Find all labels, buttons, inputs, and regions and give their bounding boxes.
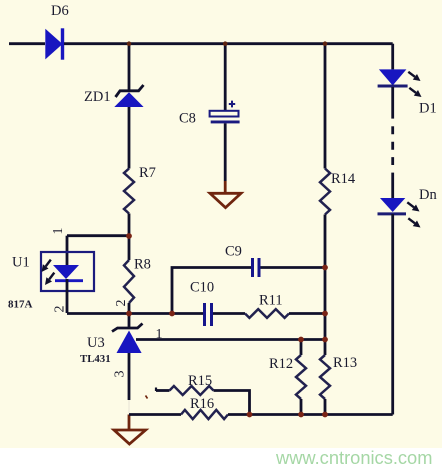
wire: top rail left of D6 bbox=[9, 42, 45, 45]
capacitor C8 bbox=[210, 44, 240, 181]
resistor R16 bbox=[181, 410, 228, 419]
ground under C8 bbox=[210, 181, 241, 208]
svg-text:R14: R14 bbox=[331, 171, 356, 187]
svg-text:R8: R8 bbox=[134, 257, 151, 273]
wire: bottom rail left of R16 bbox=[129, 413, 181, 416]
svg-text:D1: D1 bbox=[419, 101, 437, 117]
node R13 bottom bbox=[322, 412, 328, 418]
wire: U1 pin1 vertical bbox=[66, 236, 69, 265]
LED Dn bbox=[378, 198, 407, 214]
wire: U3 pin3 down bbox=[128, 353, 131, 400]
wire: dashed to Dn bbox=[391, 173, 394, 198]
op-to box U1 bbox=[41, 252, 94, 291]
svg-text:C9: C9 bbox=[225, 244, 242, 260]
svg-text:817A: 817A bbox=[8, 299, 33, 311]
svg-text:C10: C10 bbox=[190, 280, 214, 296]
zener ZD1 bbox=[114, 85, 143, 107]
svg-text:TL431: TL431 bbox=[80, 353, 111, 365]
light arrow 1 of D1 bbox=[408, 72, 420, 81]
wire: R11 to R14 column bbox=[289, 312, 325, 315]
resistor R15 bbox=[156, 386, 250, 415]
resistor R8 bbox=[124, 236, 134, 314]
svg-text:R13: R13 bbox=[333, 355, 357, 371]
light arrow 2 of U1 bbox=[45, 273, 54, 285]
diode D6 bbox=[45, 28, 64, 59]
svg-text:2: 2 bbox=[114, 300, 129, 307]
wire: dashed LED string continuation bbox=[391, 126, 394, 165]
resistor R14 bbox=[320, 169, 330, 215]
resistor R11 bbox=[245, 309, 289, 318]
svg-text:R15: R15 bbox=[188, 373, 212, 389]
svg-text:www.cntronics.com: www.cntronics.com bbox=[275, 447, 432, 468]
regulator U3 TL431 bbox=[112, 314, 143, 354]
wire: C9 left branch bbox=[172, 268, 251, 314]
wire: top rail from D6 to right corner bbox=[64, 42, 393, 45]
node top-ZD1 bbox=[127, 41, 132, 46]
node R15/R16 bbox=[247, 412, 253, 418]
node C9 branch bbox=[169, 311, 175, 317]
resistor R12 bbox=[296, 340, 306, 415]
ground under U3 bbox=[114, 415, 146, 445]
node R11/R14 bbox=[322, 311, 328, 317]
LED inside U1 bbox=[53, 265, 83, 313]
node R12 top bbox=[298, 337, 304, 343]
capacitor C9 bbox=[253, 258, 260, 277]
node top-C8 bbox=[223, 41, 228, 46]
node R8/U1 pin2 bbox=[126, 311, 132, 317]
wire: bottom rail right of R16 bbox=[228, 413, 393, 416]
node top-R14 bbox=[323, 41, 328, 46]
wire: U1 pin2 net horizontal bbox=[67, 312, 203, 315]
wire: C10 to R11 bbox=[213, 312, 245, 315]
svg-text:R7: R7 bbox=[139, 165, 156, 181]
svg-text:U1: U1 bbox=[12, 255, 30, 271]
wire: right LED column top bbox=[391, 44, 394, 70]
tick mark left of R15 bbox=[146, 396, 148, 399]
wire: U1 pin1 horizontal bbox=[67, 234, 129, 237]
light arrow 1 of U1 bbox=[42, 260, 51, 272]
svg-text:ZD1: ZD1 bbox=[84, 89, 111, 105]
wire: ZD1 to R7 bbox=[128, 107, 131, 169]
svg-text:Dn: Dn bbox=[419, 187, 437, 203]
wire: Dn to bottom right corner bbox=[391, 214, 394, 415]
wire: U3 pin1 net to R12 R13 bbox=[136, 338, 325, 341]
wire: R14 column from top rail bbox=[324, 44, 327, 169]
wire: R7 to node A bbox=[128, 214, 131, 237]
light arrow 1 of Dn bbox=[407, 202, 419, 211]
wire: D1 to dashed bbox=[391, 87, 394, 119]
node R13 top bbox=[322, 337, 328, 343]
svg-text:U3: U3 bbox=[87, 335, 105, 351]
node A R7/U1/R8 bbox=[126, 233, 132, 239]
svg-text:2: 2 bbox=[53, 306, 68, 313]
wire: ZD1 column from top rail bbox=[128, 44, 131, 90]
light arrow 2 of D1 bbox=[409, 88, 421, 97]
svg-text:1: 1 bbox=[51, 228, 66, 235]
svg-text:C8: C8 bbox=[179, 111, 196, 127]
resistor R7 bbox=[124, 169, 134, 214]
svg-text:R16: R16 bbox=[190, 396, 214, 412]
LED D1 bbox=[378, 69, 408, 86]
wire: faint gap segment bbox=[128, 400, 130, 413]
svg-text:R11: R11 bbox=[259, 293, 283, 309]
resistor R13 bbox=[320, 340, 330, 415]
svg-text:D6: D6 bbox=[51, 3, 69, 19]
node R12 bottom bbox=[298, 412, 304, 418]
wire: C9 to R14 column bbox=[261, 266, 326, 269]
svg-text:R12: R12 bbox=[269, 356, 293, 372]
wire: R14 down to pin1 net bbox=[324, 215, 327, 340]
svg-text:3: 3 bbox=[113, 371, 128, 378]
capacitor C10 bbox=[205, 303, 212, 326]
light arrow 2 of Dn bbox=[408, 218, 420, 227]
node C9/R14 bbox=[322, 265, 328, 271]
